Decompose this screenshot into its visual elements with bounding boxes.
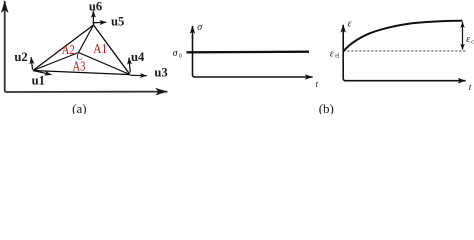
vector u6 <box>92 11 94 25</box>
axes of stress-time plot (b1) <box>193 26 313 77</box>
axes of diagram (a) <box>5 1 168 92</box>
dashed elastic-strain level line (b2) <box>343 50 466 52</box>
sigma axis label (b1) <box>197 22 203 33</box>
svg-text:A2: A2 <box>62 42 75 57</box>
svg-text:t: t <box>316 80 319 90</box>
sigma0 tick label (b1) <box>173 48 182 59</box>
vector u1 <box>33 71 52 75</box>
t axis label (b1) <box>316 80 319 90</box>
stress plateau line (b1) <box>187 51 310 54</box>
svg-text:ε: ε <box>466 34 470 45</box>
axes of strain-time plot (b2) <box>343 25 465 81</box>
svg-text:σ: σ <box>173 48 179 59</box>
label u5 <box>111 14 124 28</box>
caption (b) <box>319 101 334 116</box>
svg-text:0: 0 <box>179 53 182 60</box>
svg-text:A1: A1 <box>93 41 107 56</box>
svg-text:σ: σ <box>197 22 203 33</box>
svg-text:el: el <box>335 52 340 59</box>
svg-text:(a): (a) <box>72 101 86 114</box>
internal line C-P1 <box>33 53 79 71</box>
triangle edge P1-P2 <box>33 71 130 75</box>
label u6 <box>89 0 102 14</box>
caption (a) <box>72 101 86 116</box>
label u4 <box>131 50 145 64</box>
dimension double arrow epsilon_cr (b2) <box>462 22 464 50</box>
label u2 <box>14 50 27 64</box>
label u3 <box>154 65 167 79</box>
vector u3 <box>130 74 147 76</box>
svg-text:u4: u4 <box>131 50 145 64</box>
creep strain curve (b2) <box>343 21 462 52</box>
t axis label (b2) <box>469 83 472 93</box>
svg-text:C: C <box>77 52 83 62</box>
svg-text:u6: u6 <box>89 0 102 14</box>
svg-text:t: t <box>469 83 472 93</box>
svg-text:u5: u5 <box>111 14 124 28</box>
svg-text:u3: u3 <box>154 65 167 79</box>
label u1 <box>32 74 45 88</box>
svg-text:ε: ε <box>348 19 352 30</box>
label C (interior node) <box>77 52 83 62</box>
internal line C-P2 <box>79 53 131 75</box>
internal line C-P3 <box>79 25 94 53</box>
triangle edge P1-P3 <box>33 25 94 71</box>
label A1 <box>93 41 107 56</box>
vector u5 <box>93 21 107 24</box>
epsilon_cr label (b2) <box>466 34 474 46</box>
svg-text:(b): (b) <box>319 101 334 114</box>
epsilon axis label (b2) <box>348 19 352 30</box>
svg-text:ε: ε <box>330 49 334 60</box>
label A3 <box>73 59 86 74</box>
vector u4 <box>129 58 130 73</box>
vector u2 <box>31 57 32 69</box>
svg-text:u2: u2 <box>14 50 27 64</box>
svg-text:u1: u1 <box>32 74 45 88</box>
label A2 <box>62 42 75 57</box>
triangle edge P3-P2 <box>94 25 131 75</box>
epsilon_el tick label (b2) <box>330 49 340 60</box>
